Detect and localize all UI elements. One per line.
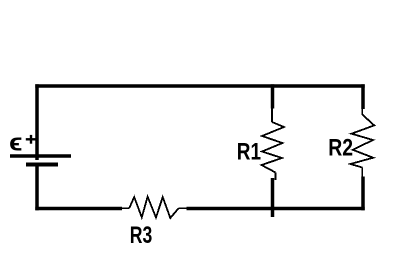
svg-text:R2: R2 [328,134,353,161]
resistor R1 lead top [271,108,273,122]
label battery plus sign [26,135,36,144]
wire left upper (battery positive lead) [35,84,39,160]
svg-text:R3: R3 [130,222,153,249]
svg-text:ϵ: ϵ [9,130,23,157]
resistor R2 zigzag [350,115,374,168]
resistor R2 lead bottom [361,168,363,178]
resistor R2 lead top [361,109,363,116]
wire R1 branch bottom stub (overshoots junction) [271,178,275,217]
battery B1 positive plate (long) [10,154,71,158]
resistor R3 lead right [179,207,188,209]
wire top (node between battery + and R1/R2 tops) [35,84,364,88]
resistor R1 lead bottom [275,173,277,181]
wire right lower (R2 to bottom wire) [361,177,365,211]
resistor R3 lead left [121,207,129,209]
wire bottom left (battery negative to R3) [35,207,122,211]
wire bottom right (R3 to R2 bottom, through R1 junction) [187,207,365,211]
battery B1 negative plate (short) [26,163,58,167]
svg-text:R1: R1 [237,138,261,165]
wire R1 branch top stub [271,84,275,108]
wire left lower (battery negative lead) [35,167,39,211]
wire right upper (top wire to R2) [361,84,365,109]
resistor R3 zigzag [129,197,178,218]
resistor R1 zigzag [262,122,285,173]
